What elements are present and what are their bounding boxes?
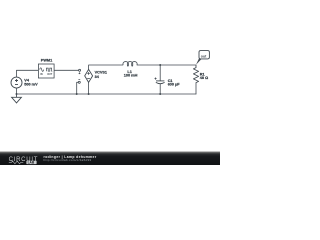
capacitor C1 [155, 78, 165, 84]
svg-text:LAB: LAB [28, 161, 35, 165]
PWM block PWM1 [38, 64, 54, 78]
svg-text:48 Ω: 48 Ω [200, 76, 208, 80]
junction C1 top on rail [159, 64, 161, 66]
svg-text:OUT: OUT [47, 73, 53, 76]
wire PWM1 output to terminal + [54, 69, 79, 71]
svg-text:out: out [201, 54, 207, 58]
wire VCVS1 bottom stub [88, 82, 90, 93]
junction ground rail at V4 [16, 93, 18, 95]
wire C1 bottom stub [159, 84, 161, 94]
resistor R1 [193, 65, 198, 83]
terminal + (top) [79, 69, 81, 74]
wire terminal - elbow to bottom rail [77, 82, 79, 94]
svg-text:100 mH: 100 mH [124, 74, 138, 78]
wire inductor right to R1 corner [137, 64, 196, 66]
svg-text:VCVS1: VCVS1 [95, 70, 107, 74]
junction terminal stub on rail [76, 93, 78, 95]
svg-text:PWM1: PWM1 [41, 59, 52, 63]
wire V4 top to PWM1 input [17, 70, 39, 77]
svg-text:500 mV: 500 mV [24, 83, 38, 87]
svg-text:IN: IN [40, 73, 43, 76]
VCVS source VCVS1 [85, 69, 93, 82]
logo LAB [26, 161, 36, 164]
terminal - (bottom) [78, 80, 80, 84]
wire bottom ground rail [17, 93, 197, 95]
svg-text:http://circuitlab.com/c/4a5d93: http://circuitlab.com/c/4a5d93 [44, 158, 92, 162]
junction C1 stub on rail [159, 93, 161, 95]
voltage source V4 [11, 77, 22, 88]
junction VCVS1 stub on rail [88, 93, 90, 95]
net flag out [196, 51, 209, 65]
inductor L1 [123, 62, 137, 67]
wire VCVS1 top to rail corner [89, 65, 123, 69]
logo resistor squiggle [9, 161, 23, 164]
wire C1 top stub [159, 65, 161, 81]
ground [12, 94, 22, 103]
svg-text:600 µF: 600 µF [168, 83, 181, 87]
wire V4 bottom stub [16, 88, 18, 94]
wire R1 bottom stub [195, 83, 197, 94]
